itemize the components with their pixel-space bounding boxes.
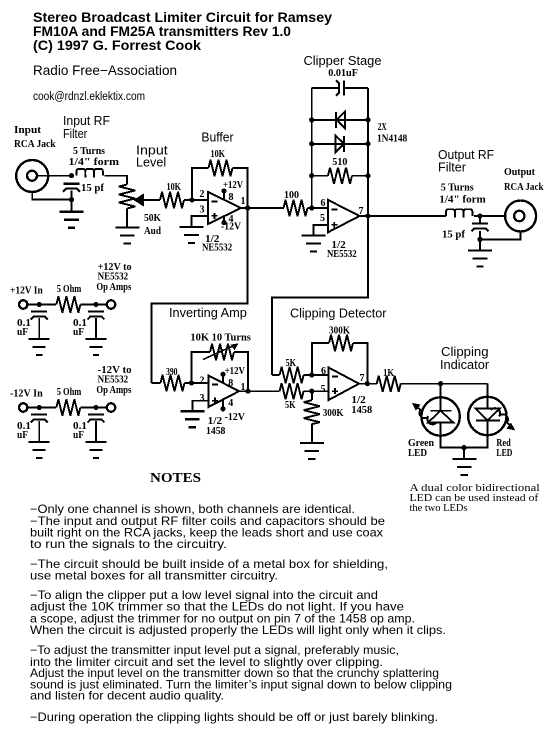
- text label: RCA Jack: [504, 182, 544, 193]
- wire buffer feedback right: [233, 168, 248, 208]
- text label: the two LEDs: [410, 503, 468, 514]
- text label: 3: [200, 393, 205, 404]
- ground +12V left cap: [29, 339, 50, 355]
- svg-text:10K: 10K: [211, 149, 226, 160]
- svg-text:15 pf: 15 pf: [442, 230, 466, 241]
- wire 5K bottom to node K: [304, 390, 312, 392]
- text label: and listen for decent audio quality.: [30, 690, 224, 703]
- node K junction pin 5 detector: [309, 389, 314, 394]
- text label: LED can be used instead of: [410, 493, 539, 504]
- svg-text:cook@rdnzl.eklektix.com: cook@rdnzl.eklektix.com: [33, 91, 145, 103]
- text label: into the limiter circuit and set the level to slightly over clipping.: [30, 656, 383, 669]
- wire clipper output to filter: [360, 215, 447, 217]
- op-amp U2a 1/2 1458 inverting: [209, 376, 240, 408]
- text label: Indicator: [440, 358, 490, 372]
- text label: 100: [284, 190, 299, 201]
- text label: 5K: [285, 400, 296, 411]
- svg-text:NE5532: NE5532: [98, 272, 129, 283]
- text label: 1: [241, 382, 246, 393]
- node M green LED junction: [438, 381, 443, 386]
- text label: Green: [408, 438, 434, 449]
- node N junction LEDs common: [461, 445, 466, 450]
- capacitor 0.1uF +12V left: [31, 312, 48, 340]
- ground inverting pin3: [180, 411, 204, 427]
- text label: Adjust the input level on the transmitter down so that the crunchy splattering: [30, 667, 439, 680]
- text label: 8: [229, 192, 234, 203]
- text label: Inverting Amp: [169, 306, 247, 320]
- node A junction: [69, 173, 74, 178]
- node I inverting output junction: [245, 389, 250, 394]
- wire cap 0.01uF left lead: [312, 87, 339, 89]
- 510 junction dots: [309, 173, 371, 178]
- svg-text:to run the signals to the circ: to run the signals to the circuitry.: [30, 538, 227, 551]
- wire 100 to node D: [308, 207, 312, 209]
- svg-text:Clipping Detector: Clipping Detector: [290, 307, 387, 321]
- svg-text:FM10A and FM25A transmitters: FM10A and FM25A transmitters Rev 1.0: [33, 24, 291, 39]
- wire output cap to node G: [479, 216, 481, 239]
- text label: −The input and output RF filter coils and capacitors should be: [30, 515, 385, 528]
- node L detector output junction: [365, 381, 370, 386]
- svg-text:510: 510: [332, 157, 347, 168]
- text label: 10K: [167, 182, 182, 193]
- svg-text:5 Turns: 5 Turns: [73, 146, 105, 157]
- wire 510 left lead: [312, 175, 328, 177]
- text label: uF: [17, 327, 28, 338]
- text label: +12V: [223, 180, 244, 191]
- svg-text:and listen for decent audio qu: and listen for decent audio quality.: [30, 690, 224, 703]
- minus sign buffer pin2: [212, 201, 218, 203]
- text label: Stereo Broadcast Limiter Circuit for Ramsey: [33, 10, 333, 25]
- text label: 15 pf: [81, 183, 105, 194]
- text label: 300K: [323, 408, 344, 419]
- resistor 5 Ohm -12V: [56, 399, 80, 415]
- buffer -12V pin 4 dot: [221, 216, 226, 225]
- svg-text:Input RF: Input RF: [63, 114, 110, 128]
- text label: RCA Jack: [14, 139, 56, 150]
- wire clipper output down to detector: [272, 216, 368, 375]
- wire pot bottom to ground: [126, 209, 128, 228]
- trimmer 10K 10 turns feedback: [203, 343, 239, 360]
- text label: LED: [408, 448, 427, 459]
- svg-text:0.01uF: 0.01uF: [328, 68, 358, 79]
- node C buffer output junction: [245, 205, 250, 210]
- plus sign det pin5: [332, 388, 338, 394]
- text label: 7: [360, 373, 365, 384]
- text label: 1/2: [205, 234, 219, 245]
- wire cap to shield node: [71, 191, 73, 200]
- svg-text:RCA Jack: RCA Jack: [14, 139, 56, 150]
- wire 510 right lead: [352, 175, 368, 177]
- resistor 10K buffer feedback: [209, 160, 233, 176]
- text label: Clipping: [441, 345, 489, 359]
- ground +12V right cap: [86, 339, 107, 355]
- svg-text:−During operation the clipping: −During operation the clipping lights sh…: [30, 711, 438, 724]
- text label: A dual color bidirectional: [410, 483, 540, 494]
- wire 5 Ohm to -12V out terminal: [80, 407, 106, 409]
- ground output filter: [468, 239, 492, 266]
- text label: 2: [200, 376, 205, 387]
- svg-text:10K 10 Turns: 10K 10 Turns: [190, 333, 251, 344]
- svg-text:LED: LED: [408, 448, 427, 459]
- wire node K to det pin5: [312, 390, 329, 392]
- svg-text:Filter: Filter: [63, 127, 88, 141]
- text label: NE5532: [202, 243, 232, 254]
- resistor 390 inverting input: [152, 375, 185, 391]
- wire input jack center pin to node A: [37, 175, 72, 177]
- text label: 0.01uF: [328, 68, 358, 79]
- svg-text:NE5532: NE5532: [202, 243, 232, 254]
- svg-text:50K: 50K: [144, 213, 161, 224]
- svg-text:+12V: +12V: [225, 366, 246, 377]
- inductor L1 5 turns input: [77, 169, 103, 177]
- svg-text:3: 3: [200, 393, 205, 404]
- node -12V right junction: [93, 405, 98, 410]
- ground pot: [115, 228, 139, 244]
- text label: NE5532: [327, 249, 357, 260]
- svg-text:use metal boxes for all transm: use metal boxes for all transmitter circ…: [30, 570, 278, 583]
- buffer +12V pin 8 dot: [221, 188, 226, 199]
- text label: 390: [166, 367, 178, 378]
- text label: NE5532: [98, 272, 129, 283]
- capacitor 0.1uF -12V right: [88, 415, 105, 443]
- text label: LED: [496, 448, 512, 459]
- resistor 5K detector bottom: [280, 383, 304, 399]
- wire 1K to LEDs: [401, 383, 488, 385]
- svg-text:1K: 1K: [383, 368, 394, 379]
- svg-text:1458: 1458: [351, 405, 372, 416]
- svg-text:5 Ohm: 5 Ohm: [57, 387, 82, 398]
- wire inductor to node F: [474, 215, 505, 217]
- shield node junction: [69, 197, 74, 202]
- svg-text:2: 2: [200, 376, 205, 387]
- svg-text:100: 100: [284, 190, 299, 201]
- inductor L2 5 turns output: [446, 209, 472, 217]
- svg-text:(C) 1997 G. Forrest Cook: (C) 1997 G. Forrest Cook: [33, 38, 202, 53]
- text label: Filter: [438, 161, 467, 175]
- svg-text:5: 5: [320, 213, 325, 224]
- wire detector feedback right: [353, 343, 367, 384]
- wire buffer output to clipper: [241, 207, 284, 209]
- text label: 2X: [378, 122, 387, 133]
- red LED D4: [468, 397, 506, 435]
- wire inverting feedback right: [234, 352, 248, 391]
- svg-text:1/4" form: 1/4" form: [439, 195, 486, 206]
- svg-text:-12V: -12V: [225, 412, 246, 423]
- text label: 1/2: [208, 416, 222, 427]
- resistor 300K detector feedback: [329, 335, 353, 351]
- text label: -12V In: [10, 389, 43, 400]
- wire R10K to node B: [184, 199, 192, 201]
- text label: to run the signals to the circuitry.: [30, 538, 227, 551]
- green LED D3: [421, 397, 459, 435]
- text label: Buffer: [201, 131, 234, 145]
- capacitor 15 pf output: [472, 223, 489, 231]
- wire -12V in to cap node: [28, 407, 56, 409]
- text label: 4: [228, 398, 233, 409]
- text label: uF: [17, 430, 28, 441]
- resistor 5 Ohm +12V: [56, 296, 80, 312]
- text label: sound is just eliminated. Turn the limiter’s input signal down to below clipping: [30, 679, 452, 692]
- text label: Input RF: [63, 114, 110, 128]
- wire pot wiper to R 10K: [144, 199, 160, 201]
- ground -12V left cap: [29, 442, 50, 458]
- minus sign inv pin2: [212, 384, 218, 386]
- text label: −The circuit should be built inside of a metal box for shielding,: [30, 558, 388, 571]
- svg-text:Clipping: Clipping: [441, 345, 489, 359]
- text label: 300K: [329, 326, 350, 337]
- text label: Input: [136, 144, 168, 158]
- text label: Output: [504, 167, 536, 178]
- ground -12V right cap: [86, 442, 107, 458]
- svg-text:15 pf: 15 pf: [81, 183, 105, 194]
- text label: uF: [73, 327, 84, 338]
- text label: 5 Turns: [73, 146, 105, 157]
- svg-text:+12V In: +12V In: [10, 286, 43, 297]
- resistor 10K buffer input: [160, 192, 184, 208]
- terminal -12V In: [19, 403, 27, 411]
- text label: 1/2: [351, 395, 365, 406]
- diode D1 1N4148 pointing left: [312, 112, 368, 129]
- svg-text:NOTES: NOTES: [150, 471, 201, 486]
- ground detector 300K: [300, 443, 324, 459]
- text label: 1/2: [331, 240, 345, 251]
- wire node H to inv pin2: [192, 382, 209, 384]
- text label: use metal boxes for all transmitter circuitry.: [30, 570, 278, 583]
- svg-text:uF: uF: [17, 327, 28, 338]
- text label: 1458: [206, 426, 225, 437]
- clipper left rail wire: [311, 88, 313, 208]
- text label: Op Amps: [96, 385, 131, 396]
- wire 390 to node H: [185, 382, 192, 384]
- wire 5 Ohm to +12V out terminal: [80, 304, 106, 306]
- svg-text:2X: 2X: [378, 122, 387, 133]
- text label: Op Amps: [96, 282, 131, 293]
- text label: 1N4148: [377, 134, 407, 145]
- text label: Filter: [63, 127, 88, 141]
- wire clipper pin5 to ground: [313, 225, 327, 236]
- text label: built right on the RCA jacks, keep the leads short and use coax: [30, 527, 383, 540]
- capacitor 0.1uF -12V left: [31, 415, 48, 443]
- svg-text:1/4" form: 1/4" form: [69, 157, 120, 168]
- svg-text:NE5532: NE5532: [327, 249, 357, 260]
- text label: 6: [321, 198, 326, 209]
- svg-text:10K: 10K: [167, 182, 182, 193]
- svg-text:2: 2: [200, 189, 205, 200]
- text label: 1/4" form: [69, 157, 120, 168]
- svg-text:Output: Output: [504, 167, 536, 178]
- svg-text:Clipper Stage: Clipper Stage: [304, 54, 382, 68]
- ground buffer pin3: [180, 227, 204, 243]
- svg-text:5K: 5K: [285, 400, 296, 411]
- text label: adjust the 10K trimmer so that the LEDs do not light. If you have: [30, 601, 404, 614]
- diode D2 1N4148 pointing right: [312, 135, 368, 152]
- svg-text:When the circuit is adjusted p: When the circuit is adjusted properly th…: [30, 624, 446, 637]
- plus sign buffer pin3: [212, 213, 218, 219]
- text label: Clipping Detector: [290, 307, 387, 321]
- text label: Level: [136, 156, 166, 170]
- node J junction pin 6 detector: [309, 372, 314, 377]
- node -12V left junction: [37, 405, 42, 410]
- text label: When the circuit is adjusted properly the LEDs will light only when it clips.: [30, 624, 446, 637]
- text label: 1: [241, 196, 246, 207]
- svg-text:3: 3: [200, 205, 205, 216]
- wire output jack shield: [480, 231, 521, 239]
- ground input filter: [60, 200, 84, 228]
- svg-text:5: 5: [321, 384, 326, 395]
- text label: NE5532: [98, 375, 129, 386]
- wire 1K wire corner to red LED: [486, 384, 488, 409]
- capacitor 0.01uF clipper feedback: [336, 80, 344, 95]
- text label: NOTES: [150, 471, 201, 486]
- svg-text:uF: uF: [73, 327, 84, 338]
- text label: +12V In: [10, 286, 43, 297]
- text label: −To adjust the transmitter input level put a signal, preferably music,: [30, 644, 399, 657]
- text label: 0.1: [17, 318, 31, 329]
- text label: +12V to: [98, 262, 132, 273]
- svg-text:4: 4: [228, 398, 233, 409]
- wire green LED to node N: [441, 423, 464, 448]
- op-amp U2b 1/2 1458 clipping detector: [329, 368, 359, 401]
- text label: −During operation the clipping lights should be off or just barely blinking.: [30, 711, 438, 724]
- text label: (C) 1997 G. Forrest Cook: [33, 38, 202, 53]
- svg-text:Radio Free−Association: Radio Free−Association: [33, 63, 177, 78]
- wire inductor to pot: [104, 176, 127, 185]
- inv amp +12V pin 8 dot: [220, 372, 225, 383]
- text label: 0.1: [73, 421, 87, 432]
- text label: 1458: [351, 405, 372, 416]
- svg-text:RCA Jack: RCA Jack: [504, 182, 544, 193]
- svg-text:Stereo Broadcast Limiter Circu: Stereo Broadcast Limiter Circuit for Ram…: [33, 10, 333, 25]
- node E clipper output junction: [365, 213, 370, 218]
- terminal +12V out: [107, 300, 115, 308]
- text label: 4: [229, 214, 234, 225]
- resistor 100 clipper input: [284, 200, 308, 216]
- svg-text:Inverting Amp: Inverting Amp: [169, 306, 247, 320]
- wire buffer pin3 to ground: [192, 216, 209, 227]
- text label: 8: [228, 378, 233, 389]
- text label: Red: [496, 438, 511, 449]
- svg-text:300K: 300K: [323, 408, 344, 419]
- text label: -12V: [221, 222, 242, 233]
- svg-text:5 Ohm: 5 Ohm: [57, 284, 82, 295]
- diode D2 junction dots: [309, 141, 371, 146]
- text label: 5 Ohm: [57, 387, 82, 398]
- svg-text:Op Amps: Op Amps: [96, 282, 131, 293]
- svg-text:Input: Input: [14, 125, 42, 136]
- diode D1 junction dots: [309, 117, 371, 122]
- wire +12V in to cap node: [28, 304, 56, 306]
- text label: 3: [200, 205, 205, 216]
- svg-text:uF: uF: [17, 430, 28, 441]
- svg-text:1N4148: 1N4148: [377, 134, 407, 145]
- text label: 5 Turns: [441, 183, 474, 194]
- wire inv pin3 to ground: [192, 401, 208, 412]
- text label: Input: [14, 125, 42, 136]
- plus sign inv pin3: [212, 398, 218, 404]
- svg-text:-12V In: -12V In: [10, 389, 43, 400]
- text label: 10K 10 Turns: [190, 333, 251, 344]
- wire 5K top to node J: [304, 374, 312, 376]
- text label: a scope, adjust the trimmer for no output on pin 7 of the 1458 op amp.: [30, 612, 415, 625]
- text label: 2: [200, 189, 205, 200]
- wire node J to det pin6: [312, 374, 329, 376]
- ground clipping indicator: [452, 448, 476, 475]
- text label: 5K: [286, 358, 297, 369]
- capacitor 15 pf input: [63, 184, 80, 192]
- wire detector feedback left: [312, 343, 329, 375]
- text label: Output RF: [438, 148, 494, 162]
- wire detector output to 1K: [359, 383, 377, 385]
- plus sign clipper pin5: [331, 222, 337, 228]
- text label: −To align the clipper put a low level signal into the circuit and: [30, 589, 378, 602]
- svg-text:Indicator: Indicator: [440, 358, 490, 372]
- resistor 510 clipper feedback: [328, 168, 352, 184]
- wire node B to op-amp pin 2: [192, 199, 208, 201]
- node D junction pin 6: [309, 205, 314, 210]
- text label: +12V: [225, 366, 246, 377]
- text label: 0.1: [73, 318, 87, 329]
- inv amp -12V pin 4 dot: [220, 400, 225, 412]
- wire input jack shield: [32, 192, 71, 200]
- svg-text:5K: 5K: [286, 358, 297, 369]
- text label: 5 Ohm: [57, 284, 82, 295]
- potentiometer 50K Aud input level: [119, 185, 144, 209]
- text label: Aud: [144, 226, 161, 237]
- output RCA jack J2: [505, 201, 536, 232]
- node +12V left junction: [37, 302, 42, 307]
- wire inverting feedback left: [192, 352, 211, 383]
- text label: −Only one channel is shown, both channels are identical.: [30, 503, 355, 516]
- terminal -12V out: [107, 403, 115, 411]
- text label: uF: [73, 430, 84, 441]
- text label: 15 pf: [442, 230, 466, 241]
- text label: 510: [332, 157, 347, 168]
- node +12V right junction: [93, 302, 98, 307]
- svg-text:NE5532: NE5532: [98, 375, 129, 386]
- text label: 6: [321, 366, 326, 377]
- svg-text:Level: Level: [136, 156, 166, 170]
- svg-text:1458: 1458: [206, 426, 225, 437]
- wire buffer feedback left: [192, 168, 209, 200]
- ground clipper pin5: [301, 235, 325, 251]
- svg-text:7: 7: [360, 373, 365, 384]
- svg-text:Op Amps: Op Amps: [96, 385, 131, 396]
- wire node M to green LED: [440, 384, 442, 411]
- svg-text:the two LEDs: the two LEDs: [410, 503, 468, 514]
- text label: Clipper Stage: [304, 54, 382, 68]
- svg-text:5 Turns: 5 Turns: [441, 183, 474, 194]
- svg-text:+12V: +12V: [223, 180, 244, 191]
- terminal +12V In: [19, 300, 27, 308]
- node B junction pin 2: [189, 197, 194, 202]
- text label: 5: [321, 384, 326, 395]
- input RCA jack J1: [16, 160, 48, 192]
- op-amp U1a 1/2 NE5532 buffer: [208, 192, 241, 224]
- wire node D to clipper pin 6: [312, 207, 328, 209]
- node G junction: [477, 237, 482, 242]
- node F junction: [477, 213, 482, 218]
- green LED light arrow: [412, 403, 437, 425]
- node H junction pin 2 inverting: [189, 380, 194, 385]
- svg-text:Buffer: Buffer: [201, 131, 234, 145]
- text label: 1K: [383, 368, 394, 379]
- text label: Radio Free−Association: [33, 63, 177, 78]
- resistor 300K detector to ground: [304, 391, 320, 443]
- wire inverting output to detector: [239, 390, 280, 392]
- wire cap 0.01uF right lead: [345, 87, 368, 89]
- text label: 50K: [144, 213, 161, 224]
- minus sign clipper pin6: [331, 209, 337, 211]
